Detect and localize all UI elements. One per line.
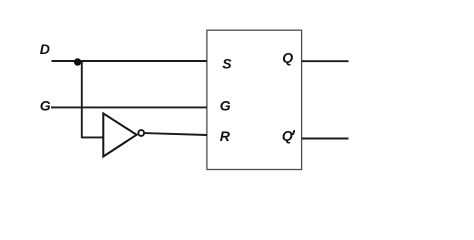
svg-text:Q: Q (282, 49, 293, 65)
svg-text:D: D (40, 41, 50, 57)
svg-text:S: S (222, 56, 232, 72)
svg-text:Q: Q (282, 128, 293, 144)
svg-text:R: R (220, 128, 231, 144)
svg-text:G: G (40, 97, 51, 113)
svg-text:G: G (220, 97, 231, 113)
